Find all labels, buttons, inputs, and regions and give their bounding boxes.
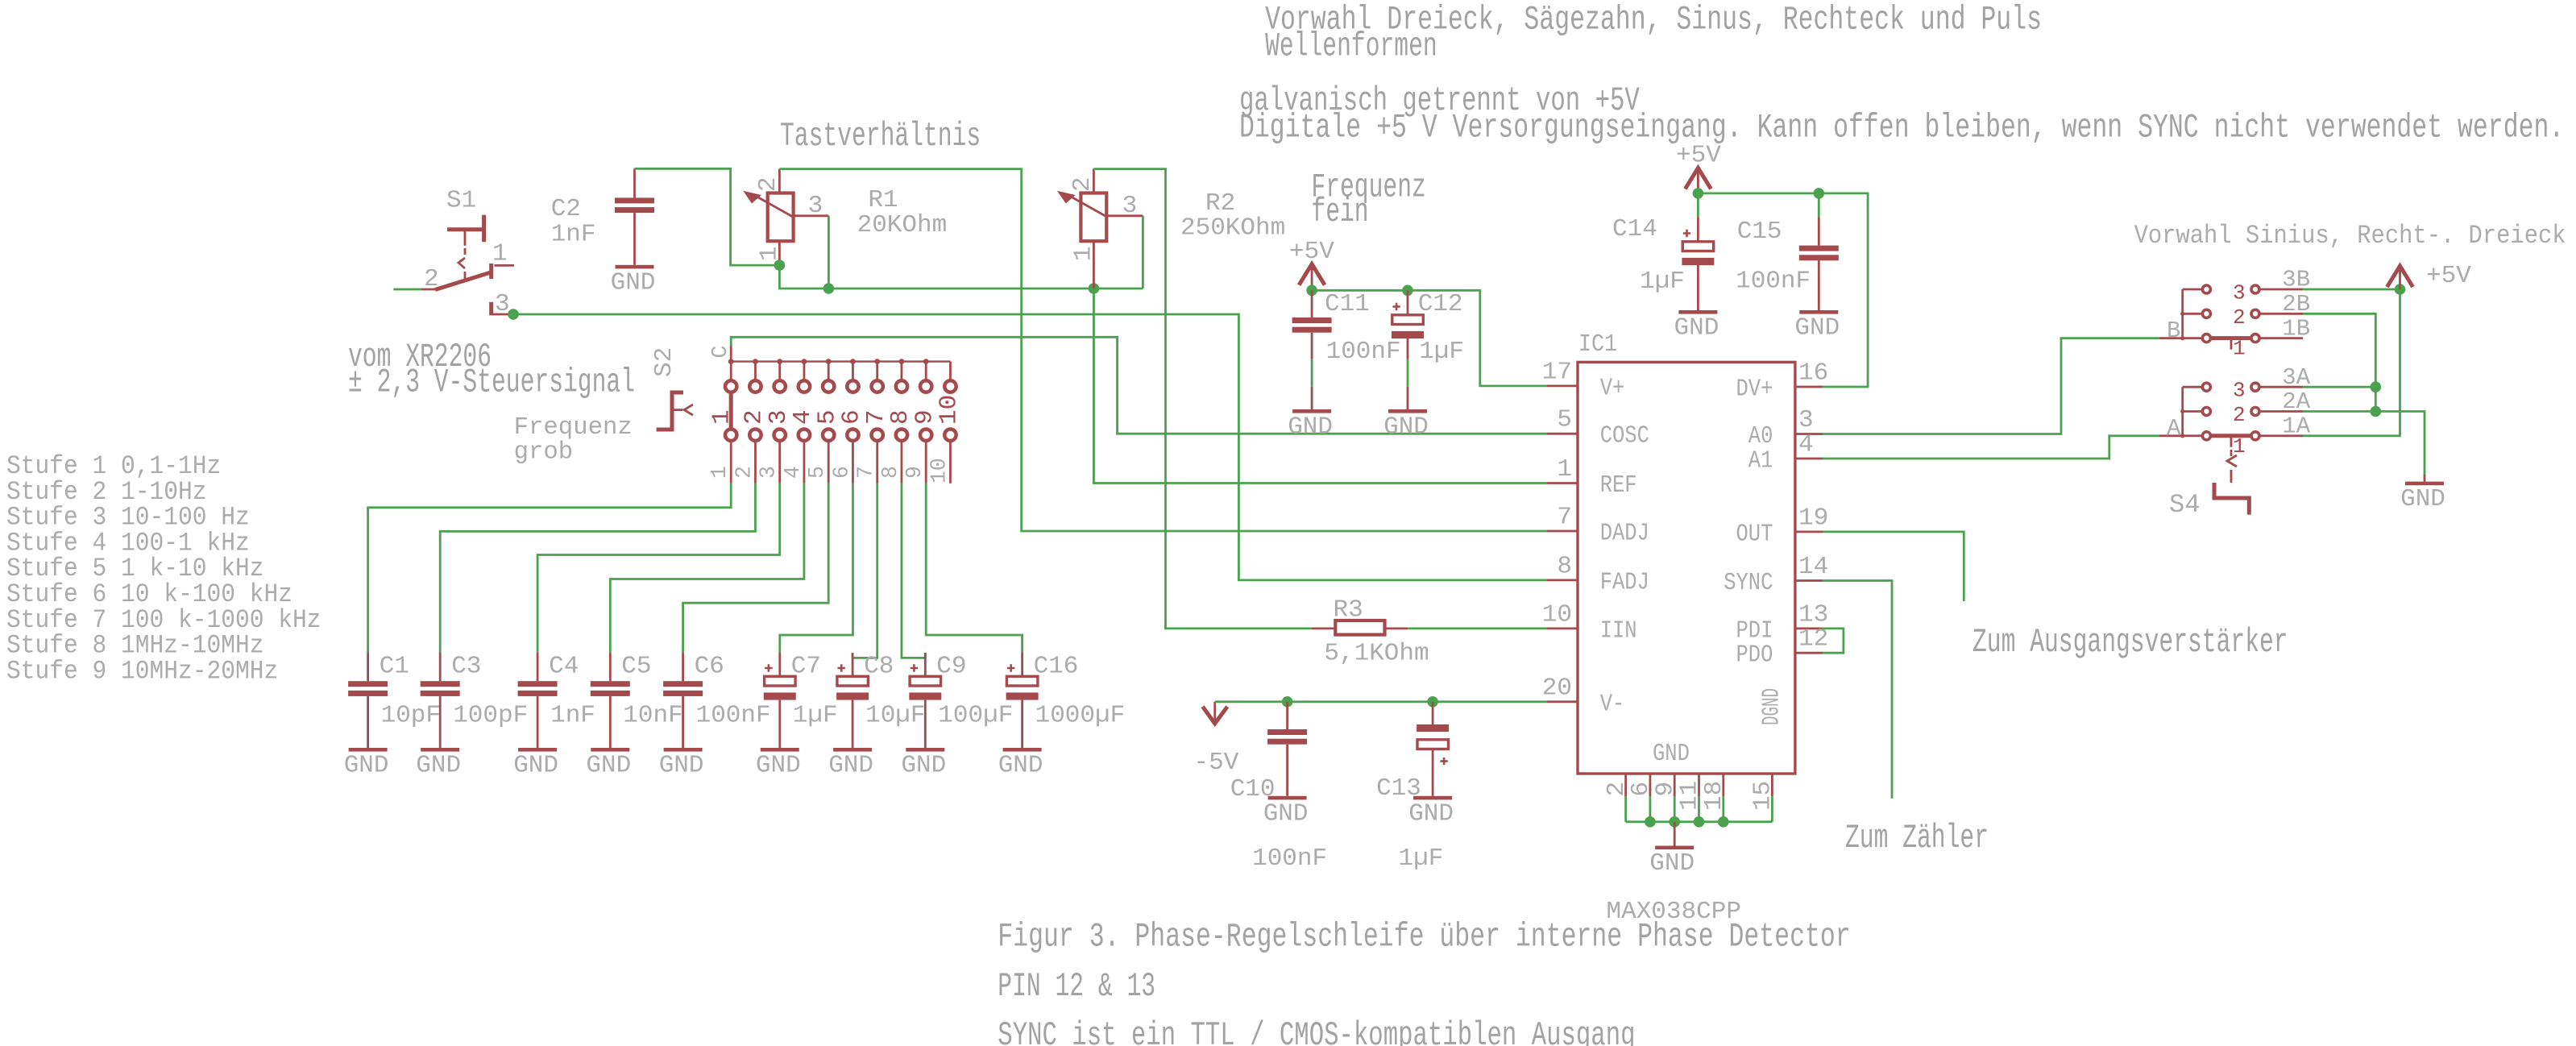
svg-text:10µF: 10µF xyxy=(865,702,925,730)
ground for C10 xyxy=(1268,796,1307,800)
svg-text:FADJ: FADJ xyxy=(1600,568,1649,596)
wire S2 pin6 to cap xyxy=(780,484,853,653)
svg-text:SYNC ist ein TTL / CMOS-kompat: SYNC ist ein TTL / CMOS-kompatiblen Ausg… xyxy=(998,1017,1635,1046)
S2 contact column 3 xyxy=(777,359,782,364)
svg-text:fein: fein xyxy=(1311,193,1368,231)
svg-text:GND: GND xyxy=(586,752,631,780)
junction C15 top xyxy=(1814,188,1825,199)
svg-text:2: 2 xyxy=(754,176,782,192)
wire S2 pin8 to cap xyxy=(902,484,925,658)
wire 2B to 3A 2A gnd net xyxy=(2303,313,2375,411)
S2 wiper link col1 xyxy=(729,392,733,430)
svg-text:1: 1 xyxy=(707,466,732,479)
svg-text:100pF: 100pF xyxy=(453,702,528,730)
junction C13 top xyxy=(1427,696,1438,708)
svg-text:GND: GND xyxy=(998,752,1043,780)
svg-text:C4: C4 xyxy=(549,653,579,681)
IC1 pin 15 GND xyxy=(1771,774,1773,796)
svg-text:Zum Ausgangsverstärker: Zum Ausgangsverstärker xyxy=(1972,624,2288,662)
IC1 pin 5 COSC xyxy=(1547,433,1578,435)
svg-text:10: 10 xyxy=(927,458,951,484)
S2 contact column 6 xyxy=(850,359,856,364)
IC1 pin 16 DV+ xyxy=(1795,386,1823,388)
wire +5V to DV+ xyxy=(1698,193,1868,387)
svg-text:1: 1 xyxy=(1069,246,1097,261)
svg-text:GND: GND xyxy=(1263,799,1309,828)
-5V supply xyxy=(1203,707,1228,724)
svg-text:2: 2 xyxy=(424,265,439,293)
IC1 pin 3 A0 xyxy=(1795,433,1823,435)
svg-text:Tastverhältnis: Tastverhältnis xyxy=(780,118,981,156)
IC1 pin 11 GND xyxy=(1698,774,1700,796)
S2 contact column 7 xyxy=(874,359,880,364)
junction R1 pin3 on Tast net xyxy=(823,283,835,294)
+5V supply C14 area xyxy=(1685,168,1711,189)
svg-text:3: 3 xyxy=(757,466,781,479)
svg-text:1: 1 xyxy=(1557,455,1572,484)
junction C12 top xyxy=(1402,285,1413,297)
svg-text:1: 1 xyxy=(708,409,736,425)
svg-text:+5V: +5V xyxy=(2426,262,2471,290)
ground for C6 xyxy=(664,748,703,752)
svg-text:grob: grob xyxy=(514,438,574,467)
svg-text:5: 5 xyxy=(805,466,829,479)
resistor R3 5,1KOhm xyxy=(1312,628,1335,630)
capacitor C11 100nF xyxy=(1311,290,1313,318)
svg-text:GND: GND xyxy=(2400,485,2445,513)
IC1 pin 6 GND xyxy=(1649,774,1652,796)
svg-text:15: 15 xyxy=(1749,781,1777,811)
+5V supply S4 xyxy=(2387,266,2413,287)
svg-text:GND: GND xyxy=(756,752,801,780)
svg-text:Stufe 9 10MHz-20MHz: Stufe 9 10MHz-20MHz xyxy=(6,656,278,686)
svg-text:16: 16 xyxy=(1798,359,1828,388)
svg-text:Figur 3. Phase-Regelschleife ü: Figur 3. Phase-Regelschleife über intern… xyxy=(998,919,1850,957)
capacitor C9 xyxy=(924,653,927,676)
svg-text:1nF: 1nF xyxy=(551,220,596,248)
capacitor C10 100nF xyxy=(1286,702,1288,729)
wire S2 C to COSC xyxy=(731,337,1547,434)
ground for C1 xyxy=(349,748,388,752)
ground for C11 xyxy=(1292,409,1331,413)
IC1 pin 17 V+ xyxy=(1547,384,1578,387)
svg-text:S2: S2 xyxy=(650,347,678,377)
svg-text:GND: GND xyxy=(1288,413,1333,442)
wire Tast net to REF xyxy=(1093,288,1547,484)
svg-text:C8: C8 xyxy=(864,653,894,681)
wire R2 pin3 down xyxy=(1142,216,1144,288)
potentiometer R2 250KOhm xyxy=(1081,193,1106,242)
ground for C3 xyxy=(421,748,459,752)
svg-text:2: 2 xyxy=(732,466,756,479)
wire R2 wiper loop to R3/IIN xyxy=(1093,169,1312,629)
svg-text:250KOhm: 250KOhm xyxy=(1180,214,1285,243)
junction gnd bus xyxy=(1669,816,1680,828)
IC1 pin 18 GND xyxy=(1722,774,1724,796)
ground for C7 xyxy=(761,748,799,752)
svg-text:4: 4 xyxy=(1798,431,1814,459)
svg-text:V-: V- xyxy=(1600,690,1625,718)
svg-text:1: 1 xyxy=(2233,434,2246,459)
svg-text:DV+: DV+ xyxy=(1736,376,1773,404)
wire R1 pin3 down xyxy=(828,216,830,288)
junction +5V S4 xyxy=(2395,284,2406,295)
IC1 pin 20 V- xyxy=(1547,700,1578,703)
svg-text:7: 7 xyxy=(854,466,878,479)
junction +5V C11 xyxy=(1306,285,1317,297)
svg-text:4: 4 xyxy=(781,466,805,479)
svg-text:2: 2 xyxy=(2233,403,2246,427)
ground for C16 xyxy=(1003,748,1042,752)
svg-text:100µF: 100µF xyxy=(938,702,1013,730)
svg-text:3: 3 xyxy=(2233,379,2246,403)
capacitor C14 1uF xyxy=(1697,193,1699,217)
junction 2A xyxy=(2371,406,2382,417)
S2 contact column 10 xyxy=(949,362,952,381)
svg-text:GND: GND xyxy=(1674,314,1719,342)
svg-text:20: 20 xyxy=(1542,674,1572,702)
svg-text:C15: C15 xyxy=(1737,218,1782,246)
wire 1A to +5V xyxy=(2303,289,2400,436)
IC1 pin 8 FADJ xyxy=(1547,579,1578,582)
svg-text:DADJ: DADJ xyxy=(1600,520,1649,548)
svg-text:V+: V+ xyxy=(1600,374,1625,402)
capacitor C6 xyxy=(682,653,684,681)
svg-text:± 2,3 V-Steuersignal: ± 2,3 V-Steuersignal xyxy=(348,363,635,401)
svg-text:8: 8 xyxy=(1557,552,1572,580)
IC1 pin 1 REF xyxy=(1547,482,1578,484)
svg-text:SYNC: SYNC xyxy=(1724,569,1773,597)
svg-text:100nF: 100nF xyxy=(1736,268,1811,296)
wire V- net xyxy=(1215,700,1547,703)
svg-text:GND: GND xyxy=(416,752,461,780)
svg-text:1nF: 1nF xyxy=(550,702,595,730)
svg-text:9: 9 xyxy=(902,466,927,479)
IC1 pin 9 GND xyxy=(1674,774,1676,796)
svg-text:GND: GND xyxy=(611,268,656,297)
svg-text:C14: C14 xyxy=(1612,215,1657,243)
svg-text:C1: C1 xyxy=(380,653,409,681)
svg-text:C: C xyxy=(708,346,732,359)
S2 contact column 4 xyxy=(802,359,807,364)
svg-text:1µF: 1µF xyxy=(1419,338,1464,366)
jumper block A xyxy=(2181,387,2184,436)
wire A0 to jumper B xyxy=(1823,338,2159,434)
svg-text:10: 10 xyxy=(1542,600,1572,629)
svg-text:GND: GND xyxy=(901,752,946,780)
svg-text:19: 19 xyxy=(1798,504,1828,532)
svg-text:COSC: COSC xyxy=(1600,422,1649,450)
ground for C5 xyxy=(591,748,629,752)
IC1 pin 10 IIN xyxy=(1547,628,1578,630)
svg-text:A: A xyxy=(2167,415,2181,442)
svg-text:1: 1 xyxy=(492,240,508,268)
svg-text:B: B xyxy=(2167,318,2180,344)
wire 3B to +5V xyxy=(2303,288,2400,291)
svg-text:Digitale +5 V Versorgungseinga: Digitale +5 V Versorgungseingang. Kann o… xyxy=(1239,109,2564,147)
switch S4 actuator xyxy=(2230,450,2233,456)
wire OUT to output amp xyxy=(1823,532,1964,601)
wire R1 wiper loop to DADJ xyxy=(779,169,1547,531)
wire S2 pin1 to cap xyxy=(368,484,732,653)
capacitor C12 1uF xyxy=(1407,290,1409,315)
junction S1 pin3 xyxy=(508,309,519,320)
svg-text:1: 1 xyxy=(755,246,783,261)
wire S2 pin5 to cap xyxy=(683,484,829,653)
svg-text:3: 3 xyxy=(1122,192,1138,220)
svg-text:C7: C7 xyxy=(791,653,821,681)
capacitor C1 xyxy=(367,653,369,681)
svg-text:1µF: 1µF xyxy=(1640,268,1685,296)
ground S4 xyxy=(2405,482,2444,486)
wire S1 pin3 to FADJ xyxy=(513,314,1547,580)
wire A1 to jumper A xyxy=(1823,436,2159,459)
wire C2 to R1 pin1 net xyxy=(635,168,778,265)
ground for C4 xyxy=(518,748,557,752)
IC1 pin 4 A1 xyxy=(1795,458,1823,460)
svg-text:1: 1 xyxy=(2233,337,2246,361)
wire IC1 ground bus xyxy=(1626,820,1773,823)
ground for C8 xyxy=(833,748,872,752)
ground for C15 xyxy=(1799,310,1838,314)
svg-text:IIN: IIN xyxy=(1600,616,1637,645)
ground for IC1 xyxy=(1674,822,1676,846)
wire S2 pin3 to cap xyxy=(537,484,780,653)
svg-text:R3: R3 xyxy=(1334,596,1363,625)
capacitor C3 xyxy=(439,653,442,681)
jumper block B xyxy=(2181,289,2184,338)
capacitor C2 xyxy=(633,168,636,197)
svg-text:C3: C3 xyxy=(451,653,481,681)
svg-text:1µF: 1µF xyxy=(793,702,838,730)
svg-text:GND: GND xyxy=(1649,849,1695,878)
svg-text:1B: 1B xyxy=(2282,315,2310,342)
junction 3A xyxy=(2371,381,2382,392)
svg-text:C5: C5 xyxy=(621,653,651,681)
svg-text:20KOhm: 20KOhm xyxy=(857,211,948,239)
svg-text:1000µF: 1000µF xyxy=(1035,702,1126,730)
S2 common bus xyxy=(731,360,950,362)
ground for C14 xyxy=(1678,310,1717,314)
junction C10 top xyxy=(1282,696,1293,708)
svg-text:10: 10 xyxy=(935,395,964,425)
S2 contact column 5 xyxy=(826,359,832,364)
wire Tastverhaeltnis net xyxy=(779,265,1143,288)
svg-text:REF: REF xyxy=(1600,471,1637,500)
svg-text:8: 8 xyxy=(878,466,902,479)
svg-text:OUT: OUT xyxy=(1736,520,1773,548)
svg-text:2: 2 xyxy=(1068,176,1097,192)
IC1 pin 14 SYNC xyxy=(1795,579,1823,582)
svg-text:-5V: -5V xyxy=(1194,749,1239,777)
junction R1 pin1 xyxy=(774,259,786,271)
svg-text:GND: GND xyxy=(344,752,389,780)
svg-text:1µF: 1µF xyxy=(1399,845,1444,873)
svg-text:18: 18 xyxy=(1700,781,1728,811)
ground for C13 xyxy=(1413,796,1452,800)
junction gnd bus xyxy=(1694,816,1705,828)
svg-text:DGND: DGND xyxy=(1758,688,1786,725)
S2 contact column 1 xyxy=(728,359,734,364)
junction +5V C14 xyxy=(1693,188,1704,199)
svg-text:C6: C6 xyxy=(695,653,724,681)
S2 common C lead xyxy=(730,345,732,362)
S2 contact column 2 xyxy=(753,359,758,364)
svg-text:7: 7 xyxy=(1557,504,1572,532)
capacitor C16 xyxy=(1021,653,1023,676)
svg-text:2: 2 xyxy=(2233,305,2246,330)
svg-text:GND: GND xyxy=(1383,413,1429,442)
junction gnd bus xyxy=(1718,816,1729,828)
svg-text:IC1: IC1 xyxy=(1578,330,1617,359)
wire +5V to V+ xyxy=(1312,290,1547,386)
IC1 pin 7 DADJ xyxy=(1547,530,1578,533)
potentiometer R1 20KOhm xyxy=(768,193,794,242)
svg-text:GND: GND xyxy=(1408,799,1454,828)
IC1 pin 12 PDO xyxy=(1795,652,1823,654)
svg-text:GND: GND xyxy=(1794,314,1840,342)
wire SYNC to counter xyxy=(1823,581,1892,799)
svg-text:100nF: 100nF xyxy=(1326,338,1401,366)
wire A common xyxy=(2159,434,2182,437)
svg-text:3: 3 xyxy=(2233,281,2246,305)
ground for C12 xyxy=(1388,409,1427,413)
svg-text:GND: GND xyxy=(1653,740,1690,768)
wire S2 pin4 to cap xyxy=(610,484,804,653)
svg-text:100nF: 100nF xyxy=(1252,845,1327,873)
svg-text:Zum Zähler: Zum Zähler xyxy=(1845,820,1989,857)
svg-text:GND: GND xyxy=(513,752,558,780)
svg-text:3: 3 xyxy=(808,192,823,220)
capacitor C4 xyxy=(537,653,539,681)
wire S2 pin7 to cap xyxy=(852,484,877,658)
svg-text:PDO: PDO xyxy=(1736,641,1773,670)
wire 2A to GND xyxy=(2303,412,2425,475)
svg-text:14: 14 xyxy=(1798,553,1828,581)
svg-text:5,1KOhm: 5,1KOhm xyxy=(1324,640,1429,668)
ground for C9 xyxy=(906,748,944,752)
svg-text:C2: C2 xyxy=(551,195,581,223)
wire S2 pin2 to cap xyxy=(440,484,755,653)
svg-text:10nF: 10nF xyxy=(623,702,682,730)
S2 contact column 8 xyxy=(899,359,905,364)
capacitor C5 xyxy=(609,653,612,681)
svg-text:C12: C12 xyxy=(1418,290,1463,318)
svg-text:3: 3 xyxy=(495,290,510,318)
wire S2 pin9 to cap xyxy=(926,484,1022,653)
svg-text:C9: C9 xyxy=(936,653,966,681)
capacitor C13 1uF xyxy=(1432,702,1434,724)
capacitor C7 xyxy=(778,653,781,676)
capacitor C8 xyxy=(852,653,854,676)
svg-text:C11: C11 xyxy=(1325,290,1370,318)
wire 3A xyxy=(2303,386,2375,388)
wire S1 pin2 input from XR2206 xyxy=(393,288,421,291)
svg-text:17: 17 xyxy=(1542,358,1572,386)
S2 contact column 9 xyxy=(923,359,929,364)
svg-text:A1: A1 xyxy=(1748,447,1773,475)
junction gnd bus xyxy=(1645,816,1656,828)
ground for C2 xyxy=(616,265,654,269)
wire PDI-PDO loop xyxy=(1823,629,1844,653)
IC1 pin 13 PDI xyxy=(1795,628,1823,630)
+5V supply C11 area xyxy=(1299,264,1325,285)
IC1 pin 2 GND xyxy=(1624,774,1627,796)
svg-text:Wellenformen: Wellenformen xyxy=(1265,28,1437,66)
wire B common xyxy=(2159,337,2182,339)
svg-text:S1: S1 xyxy=(446,187,476,215)
svg-text:5: 5 xyxy=(1557,406,1572,434)
svg-text:S4: S4 xyxy=(2169,490,2200,520)
svg-text:Vorwahl Sinius, Recht-. Dreiec: Vorwahl Sinius, Recht-. Dreieck xyxy=(2134,221,2566,251)
svg-text:10pF: 10pF xyxy=(381,702,441,730)
svg-text:6: 6 xyxy=(829,466,853,479)
junction R2 pin1 on Tast net xyxy=(1089,283,1100,294)
svg-text:GND: GND xyxy=(828,752,873,780)
svg-text:PIN 12 & 13: PIN 12 & 13 xyxy=(998,968,1155,1006)
svg-text:100nF: 100nF xyxy=(696,702,771,730)
IC1 pin 19 OUT xyxy=(1795,531,1823,533)
capacitor C15 100nF xyxy=(1818,193,1820,217)
svg-text:GND: GND xyxy=(659,752,704,780)
svg-text:C16: C16 xyxy=(1034,653,1079,681)
